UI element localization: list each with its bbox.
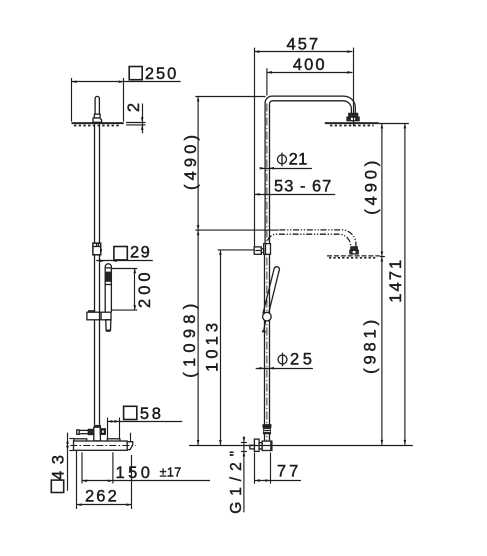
dim 58: extension lines	[107, 418, 109, 439]
svg-text:150: 150	[115, 464, 150, 482]
wand tip cap	[106, 330, 111, 332]
dim 262: arrows	[77, 503, 132, 506]
head connector nut (front) lower	[347, 117, 359, 121]
dim phi21 arrows	[260, 167, 274, 170]
svg-text:21: 21	[289, 151, 308, 169]
arrows of 1471	[404, 123, 407, 445]
svg-text:400: 400	[293, 56, 325, 74]
dim 457: arrows	[254, 50, 352, 53]
valve lever end cap	[77, 430, 79, 434]
svg-text:(490): (490)	[182, 135, 200, 190]
folded arm alternate position (dash-dot-dot) upper line	[279, 230, 356, 247]
dim 457: dimension line	[254, 51, 352, 53]
arrows of (490)/(1098)	[197, 96, 200, 445]
riser pipe inner contour	[270, 101, 352, 244]
hand shower wand (side view) body	[105, 264, 111, 312]
elbow inner line	[270, 441, 272, 450]
tee inner line	[265, 244, 267, 255]
union connector	[259, 443, 262, 449]
dim 400: dimension line	[267, 72, 353, 74]
dim 457: extension lines	[254, 48, 256, 247]
dim phi25 leader	[256, 368, 313, 370]
knob connector	[261, 249, 263, 253]
dim 262: dimension line	[77, 504, 132, 506]
valve lever pivot	[88, 429, 93, 434]
svg-text:25: 25	[290, 351, 312, 369]
dim 262: extension lines	[76, 451, 78, 509]
shower head plate (side view, thick line)	[72, 122, 124, 124]
dim 150: arrows	[82, 479, 113, 482]
svg-text:2: 2	[125, 103, 143, 112]
dim 2: arrows	[141, 117, 144, 130]
connector knurl band line	[93, 246, 101, 248]
stem collar	[94, 114, 100, 118]
svg-text:29: 29	[130, 244, 150, 262]
svg-text:1471: 1471	[387, 260, 405, 303]
shower head arm stem (side view)	[95, 96, 99, 114]
riser pipe centerline (front view)	[266, 104, 268, 445]
inlet stub	[250, 445, 255, 449]
svg-text:±17: ±17	[160, 466, 182, 480]
svg-text:457: 457	[287, 35, 319, 53]
slider holder bump	[89, 311, 95, 312]
dim G1/2 arrows	[243, 437, 246, 456]
extension line at riser top level	[195, 96, 265, 98]
hand shower wand (front view, tilted)	[263, 267, 279, 314]
slider holder block	[87, 312, 111, 320]
dim 53-67 leader	[255, 194, 336, 196]
shower head spray hatch	[74, 125, 121, 127]
riser pipe outer contour (left+top+right bend)	[265, 96, 355, 243]
dim 58: arrows	[107, 420, 119, 423]
valve lever arm	[79, 430, 88, 433]
dim 250: dimension line	[72, 81, 181, 83]
valve body centerline	[70, 445, 136, 447]
bottom hose nut	[263, 425, 271, 427]
dim G1/2 ticks	[241, 442, 247, 444]
wire: main riser pipe (side view) left line	[94, 124, 96, 425]
dim 200: dimension line	[134, 268, 136, 310]
slider holder split line	[99, 312, 101, 320]
folded arm alternate position lower line	[268, 234, 351, 247]
extension line at knob level	[218, 249, 255, 251]
extension line at folded arm level	[195, 229, 278, 231]
label phi25 symbol	[278, 353, 287, 367]
svg-text:1013: 1013	[203, 323, 221, 372]
outlet elbow body	[262, 441, 272, 450]
valve right knob inner	[102, 430, 105, 434]
svg-text:(1098): (1098)	[181, 304, 199, 378]
lower head spray hatch	[329, 257, 376, 259]
dim G1/2 leader line	[243, 436, 245, 512]
label square 58	[124, 406, 137, 419]
svg-text:G1/2": G1/2"	[228, 451, 245, 514]
svg-text:58: 58	[140, 405, 161, 423]
dim 1013 line	[220, 250, 222, 445]
dim 77: extension lines	[254, 453, 256, 484]
dim 150: dimension line	[82, 480, 210, 482]
dim 29: arrows	[100, 259, 117, 262]
dim 1471 line	[404, 123, 406, 445]
svg-text:262: 262	[85, 488, 117, 506]
wire: main riser pipe (side view) right line	[99, 124, 101, 425]
dim 2: extension ticks	[126, 122, 146, 124]
knob inner line	[255, 250, 260, 252]
dim phi21 leader	[260, 168, 312, 170]
top extension line of right dims	[379, 123, 409, 125]
dim 43: dimension line	[67, 433, 69, 491]
valve outlet end	[127, 442, 133, 450]
wall escutcheon left	[74, 439, 87, 442]
dim (490)/(981) line right	[381, 123, 383, 445]
svg-text:250: 250	[145, 65, 176, 83]
wand band line	[105, 267, 111, 269]
folded arm connector nut upper	[351, 247, 357, 250]
svg-text:200: 200	[136, 272, 154, 308]
dim 43: arrows	[66, 439, 69, 451]
dim 250: arrows	[72, 80, 124, 83]
valve cartridge (side view)	[94, 427, 101, 441]
label square 29	[114, 247, 127, 260]
wall escutcheon right	[107, 439, 120, 442]
dim (490)/(1098) line left	[197, 96, 199, 445]
arrows of (490)/(981)	[381, 123, 384, 445]
valve right knob	[100, 429, 105, 435]
shower head plate (front view, thick line)	[325, 122, 379, 124]
dim 150: extension lines	[81, 452, 83, 483]
wall union	[254, 439, 259, 451]
label square 43 (rotated)	[51, 480, 63, 492]
svg-text:53 - 67: 53 - 67	[274, 177, 331, 195]
svg-text:77: 77	[277, 462, 298, 480]
wand band line 2	[105, 284, 111, 286]
connector knurl dividers	[96, 243, 98, 246]
shower head spray hatch (front)	[330, 125, 374, 127]
svg-text:(981): (981)	[362, 320, 380, 374]
dim phi25 arrows	[260, 367, 275, 370]
dim 400: extension line	[266, 68, 268, 95]
wand tip (front view)	[264, 321, 266, 331]
label phi21 symbol	[278, 153, 287, 167]
outlet neck	[264, 434, 266, 442]
dim 43: extension ticks	[69, 438, 74, 440]
lower head extension to dim line	[380, 256, 385, 258]
wand tip cap (front view)	[262, 330, 266, 333]
wand handle tip below holder	[106, 320, 111, 330]
diverter tee (front view)	[264, 244, 271, 255]
valve body (side view)	[74, 441, 128, 450]
stem nut	[93, 118, 102, 122]
dim 250: extension lines	[71, 78, 73, 122]
dim 58: leader line	[107, 421, 182, 423]
connector side nub	[101, 249, 102, 251]
bottom ribbed connector (hatched)	[264, 427, 271, 434]
arrows of 1013	[219, 250, 222, 445]
valve top nut (side view)	[94, 425, 101, 427]
svg-text:(490): (490)	[362, 161, 380, 215]
dim 77: arrows	[255, 479, 271, 482]
lower shower head position (dashed line)	[327, 255, 380, 257]
dim 200: extension lines	[112, 268, 137, 270]
baseline extension at outlet level	[189, 445, 413, 447]
dim 200: arrows	[133, 268, 136, 310]
dim 2: dimension line	[142, 104, 144, 134]
svg-text:43: 43	[50, 455, 68, 480]
head connector nut (front) upper	[349, 113, 358, 117]
riser pipe below tee	[264, 254, 266, 424]
diverter knob	[254, 247, 261, 254]
dim 77: dimension line	[255, 480, 301, 482]
wand dark grip	[105, 272, 111, 282]
label square 250	[129, 67, 142, 80]
dim 29: leader line	[96, 260, 153, 262]
folded arm connector nut lower	[350, 250, 358, 254]
pipe union connector (side view) body	[93, 243, 101, 255]
slider ring (front view)	[263, 312, 272, 321]
dim 400: arrows	[267, 71, 353, 74]
dim 53-67 arrow	[255, 193, 260, 196]
